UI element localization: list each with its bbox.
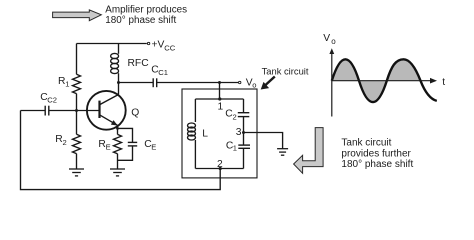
svg-text:C2: C2	[47, 96, 57, 105]
svg-text:C1: C1	[158, 68, 168, 77]
svg-text:180° phase shift: 180° phase shift	[341, 159, 413, 170]
capacitor C1	[238, 144, 250, 146]
svg-text:Tank circuit: Tank circuit	[262, 66, 309, 77]
capacitor C2	[238, 112, 250, 114]
node 3	[242, 131, 245, 134]
node base junction	[75, 109, 78, 112]
node Vo terminal	[239, 81, 241, 83]
wire junction down to node 1	[219, 83, 221, 100]
svg-text:provides further: provides further	[341, 148, 411, 159]
wire Vcc rail	[77, 43, 147, 45]
svg-text:1: 1	[233, 144, 237, 153]
graph t-axis	[332, 80, 432, 82]
svg-text:E: E	[106, 142, 111, 151]
node 1	[218, 97, 221, 100]
transistor Q1	[87, 91, 126, 130]
wire left vertical to R1	[76, 44, 78, 75]
wire CC2 left down and along bottom to node 2	[21, 111, 221, 190]
resistor R1	[73, 74, 81, 93]
svg-text:L: L	[202, 129, 208, 140]
wire C1 to node 2	[243, 148, 245, 168]
arrow bent (tank provides)	[294, 128, 324, 174]
svg-text:3: 3	[236, 127, 242, 138]
tank circuit box	[182, 89, 257, 178]
ground under R2	[69, 169, 84, 176]
wire CC1 to Vo terminal	[157, 82, 238, 84]
svg-text:180° phase shift: 180° phase shift	[105, 15, 176, 26]
resistor R2	[73, 134, 81, 153]
wire junction down to collector	[118, 83, 120, 95]
wire R2 to ground	[76, 154, 78, 169]
wire tank loop bottom	[195, 168, 243, 170]
svg-text:2: 2	[217, 159, 223, 170]
svg-text:o: o	[252, 80, 256, 89]
node 2	[219, 167, 222, 170]
svg-text:2: 2	[63, 138, 67, 147]
svg-text:o: o	[331, 37, 336, 46]
svg-text:RFC: RFC	[128, 58, 150, 69]
svg-text:1: 1	[218, 102, 224, 113]
svg-text:CC: CC	[164, 43, 175, 52]
wire RE to ground	[117, 154, 119, 169]
svg-text:Tank circuit: Tank circuit	[341, 138, 391, 149]
wire tank loop left lower	[194, 140, 196, 169]
arrow tank pointer	[261, 77, 275, 90]
capacitor CE branch	[118, 128, 133, 142]
wire tank loop left upper	[194, 99, 196, 122]
svg-text:Amplifier produces: Amplifier produces	[105, 4, 187, 15]
inductor L	[188, 123, 196, 128]
node Vcc terminal	[147, 42, 149, 44]
waveform shading	[332, 59, 421, 102]
svg-text:Q: Q	[131, 108, 139, 119]
capacitor CC2	[21, 110, 46, 112]
wire base node to R2	[76, 111, 78, 135]
wire node 3 to ground	[244, 133, 283, 149]
node top tank junction	[218, 81, 221, 84]
arrow amplifier (top left)	[53, 10, 102, 21]
wire emitter down	[117, 125, 119, 134]
wire tank loop top	[195, 98, 243, 100]
svg-text:+V: +V	[152, 40, 165, 51]
svg-text:2: 2	[233, 113, 237, 122]
ground at node 3	[277, 149, 288, 156]
wire base horizontal	[49, 110, 100, 112]
wire tank loop right upper	[243, 99, 245, 113]
svg-text:1: 1	[65, 80, 69, 89]
svg-text:t: t	[442, 77, 445, 88]
resistor RE	[114, 134, 122, 153]
svg-text:V: V	[323, 33, 330, 44]
node collector junction	[117, 81, 120, 84]
svg-text:E: E	[151, 143, 156, 152]
inductor RFC	[118, 44, 120, 54]
wire R1 to base node	[76, 94, 78, 111]
node emitter/CE junction	[116, 127, 119, 130]
waveform curve	[332, 59, 437, 102]
ground under RE	[110, 169, 125, 176]
graph y-axis	[331, 52, 333, 117]
capacitor CC1	[119, 82, 154, 84]
wire C2 to C1	[243, 117, 245, 145]
